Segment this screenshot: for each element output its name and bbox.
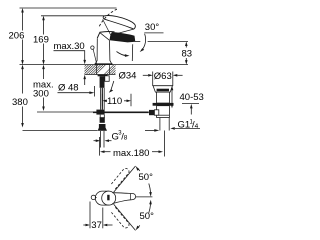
dimension 40-53 (171, 86, 174, 109)
axis line right (136, 196, 153, 198)
upper 50 arc (136, 166, 152, 197)
svg-text:50°: 50° (140, 211, 155, 222)
extension line top (raised lever level) (20, 7, 117, 9)
dimension 380 line (21, 65, 24, 128)
svg-text:83: 83 (182, 49, 193, 60)
max.30 arrow down at deck top (83, 60, 86, 64)
top view handle (112, 193, 135, 204)
dimension max.180 (100, 150, 163, 153)
tailpipe (160, 118, 169, 131)
top view knob (91, 195, 95, 199)
dashed raised lever (99, 9, 117, 26)
dimension max.300 line (42, 65, 45, 111)
G3/8 nut (98, 117, 107, 131)
dimension 37 arrows (83, 224, 112, 227)
supply pipe lower (100, 115, 104, 118)
angle leg from spout tip (131, 44, 133, 61)
ball housing (157, 106, 170, 118)
pop-up rod upper (93, 49, 96, 63)
mounting washer below deck (98, 75, 108, 77)
deck top reference line (20, 64, 189, 66)
svg-text:206: 206 (9, 31, 25, 42)
threaded shank (100, 76, 105, 88)
svg-text:50°: 50° (139, 172, 154, 183)
rod guide box (105, 76, 109, 82)
actuator nut (149, 110, 154, 115)
svg-text:300: 300 (33, 89, 49, 100)
svg-text:380: 380 (12, 97, 28, 108)
Ø48 underline leader with arrow (58, 91, 95, 94)
30deg arc with arrow (140, 34, 146, 52)
Ø48 extension line (94, 86, 96, 97)
label G1 1/4 (178, 120, 199, 131)
faucet body front view (95, 38, 111, 64)
tailpipe axis line (164, 131, 166, 157)
30deg underline (144, 32, 163, 34)
pop-up knob (91, 46, 94, 49)
dimension 83 (185, 42, 188, 65)
angle leg upper (114, 166, 136, 192)
Ø34 leader arrow (109, 81, 114, 93)
svg-text:Ø34: Ø34 (119, 71, 137, 82)
faucet base joint on deck (95, 63, 113, 65)
drain flange extension lines (153, 72, 173, 87)
dimension 206 line (21, 8, 24, 65)
dimension 37 extension lines (90, 202, 103, 229)
clamp reference arrow (190, 104, 193, 115)
svg-text:Ø63: Ø63 (154, 71, 172, 82)
max.30 arrow up at deck bottom (83, 75, 86, 85)
Ø63 dimension arrows (143, 74, 183, 77)
max.30 underline leader (54, 51, 85, 61)
swivel arrow under spout (117, 52, 130, 57)
thread stub (101, 131, 104, 148)
dashed handle up position (110, 168, 129, 189)
svg-text:30°: 30° (145, 22, 160, 33)
top view body capsule (95, 191, 109, 205)
svg-text:169: 169 (33, 35, 49, 46)
leader arrow to drain tailpipe (145, 129, 159, 132)
drain body (157, 92, 170, 103)
dimension 110 extension line right (spout tip axis) (130, 94, 132, 107)
dimension 110 extension line left (faucet axis) (101, 94, 103, 107)
svg-text:G1: G1 (178, 120, 191, 131)
svg-text:8: 8 (124, 135, 128, 142)
actuator housing (154, 110, 158, 115)
extension line lever tip level (41, 15, 105, 17)
G3/8 thread arrows (94, 139, 112, 142)
G1 1/4 leader with arrow (170, 127, 200, 130)
dashed handle down position (110, 207, 129, 228)
spout level reference line (83 top) (135, 41, 188, 43)
dimension 169 line (42, 16, 45, 65)
svg-text:Ø 48: Ø 48 (58, 83, 79, 94)
handle tip bevel (129, 194, 131, 200)
svg-text:37: 37 (91, 220, 102, 231)
pipe end extension line (99, 137, 101, 156)
pop-up horizontal rod (93, 111, 149, 113)
rod clevis knot (96, 110, 104, 115)
supply pipe upper (100, 88, 104, 110)
deck slab hatched (76, 64, 124, 75)
drain flange (153, 86, 173, 92)
faucet cap and spout (97, 32, 135, 43)
dimension 110 line (102, 100, 131, 103)
lever handle front view (103, 16, 136, 40)
svg-text:110: 110 (107, 96, 122, 107)
lower 50 arc (136, 200, 152, 231)
label G3/8 (112, 131, 128, 143)
svg-text:40-53: 40-53 (180, 92, 204, 103)
clamp ring (153, 103, 174, 106)
svg-text:max.180: max.180 (113, 148, 149, 159)
clamp top reference line (182, 103, 199, 105)
top view escutcheon circle (102, 191, 116, 205)
hose end reference line (max.300 bottom) (37, 111, 93, 113)
lever slot (107, 195, 109, 201)
angle leg lower (114, 204, 136, 230)
supply end reference line (380 bottom) (23, 130, 98, 132)
